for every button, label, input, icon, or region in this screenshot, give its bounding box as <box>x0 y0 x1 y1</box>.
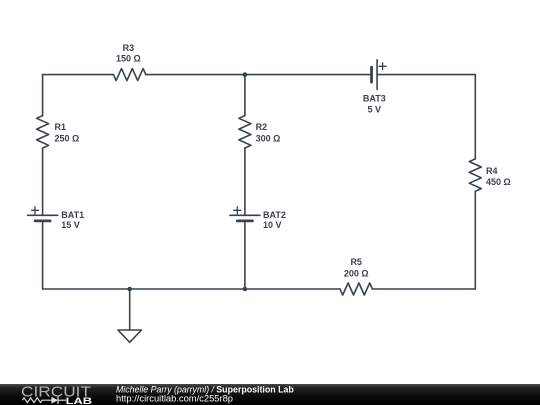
svg-text:BAT2: BAT2 <box>263 210 286 220</box>
svg-text:R5: R5 <box>350 257 362 267</box>
svg-text:450 Ω: 450 Ω <box>486 177 511 187</box>
svg-text:BAT3: BAT3 <box>363 94 386 104</box>
svg-text:15 V: 15 V <box>61 220 80 230</box>
svg-text:150 Ω: 150 Ω <box>116 53 141 63</box>
svg-text:R4: R4 <box>486 166 498 176</box>
svg-text:10 V: 10 V <box>263 220 282 230</box>
svg-text:200 Ω: 200 Ω <box>344 269 369 279</box>
svg-text:R1: R1 <box>55 122 67 132</box>
svg-text:R3: R3 <box>123 43 135 53</box>
svg-text:http://circuitlab.com/c255r8p: http://circuitlab.com/c255r8p <box>116 393 233 403</box>
svg-text:BAT1: BAT1 <box>61 210 84 220</box>
svg-text:R2: R2 <box>256 122 268 132</box>
svg-text:250 Ω: 250 Ω <box>55 134 80 144</box>
svg-text:5 V: 5 V <box>368 104 382 114</box>
svg-text:LAB: LAB <box>66 396 93 405</box>
svg-text:300 Ω: 300 Ω <box>256 134 281 144</box>
